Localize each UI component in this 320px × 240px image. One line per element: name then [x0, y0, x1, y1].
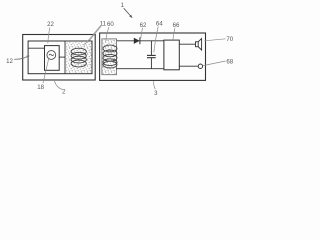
svg-text:64: 64 [156, 21, 163, 28]
terminal circle 68 [198, 64, 202, 68]
right device housing [100, 33, 206, 80]
svg-text:68: 68 [226, 58, 233, 65]
wire from inner housing to box 22 [28, 47, 44, 49]
arrow leader for figure 1 [124, 8, 131, 16]
leader 22 [48, 28, 50, 44]
potting block with coil (right) [102, 39, 117, 75]
wire to speaker [179, 43, 195, 45]
svg-text:60: 60 [107, 21, 114, 28]
leader 62 [141, 28, 143, 39]
svg-text:12: 12 [6, 58, 13, 65]
driver box 66 [164, 40, 179, 70]
leader 66 [173, 28, 175, 40]
leader 11 [89, 26, 101, 41]
leader 60 [106, 27, 109, 41]
bottom wire [116, 68, 164, 70]
svg-text:66: 66 [173, 22, 180, 29]
coil 60 [103, 45, 117, 68]
leader 68 [203, 61, 226, 66]
leader 18 [43, 59, 49, 84]
leader 2 [55, 81, 63, 90]
wire from box 22 to coil block [59, 56, 65, 58]
diode 62 [134, 38, 140, 44]
svg-text:18: 18 [37, 84, 44, 91]
potting block with coil (left) [65, 41, 92, 73]
speaker 70 [196, 42, 199, 47]
tilde inside oscillator [49, 54, 54, 55]
capacitor 64 [150, 41, 152, 55]
electronics box 22 [45, 46, 60, 71]
svg-text:22: 22 [47, 21, 54, 28]
wire to terminal [179, 65, 198, 67]
oscillator circle 18 [47, 51, 56, 60]
top wire [117, 40, 164, 42]
leader 64 [154, 27, 158, 53]
coil 11 [71, 48, 86, 67]
leader 12 with arrowhead [14, 57, 27, 60]
left device outer housing 12 [23, 35, 96, 81]
left device inner housing [28, 41, 92, 74]
svg-text:62: 62 [140, 22, 147, 29]
leader 3 [153, 81, 155, 89]
svg-text:70: 70 [226, 36, 233, 43]
leader 70 [204, 39, 225, 41]
